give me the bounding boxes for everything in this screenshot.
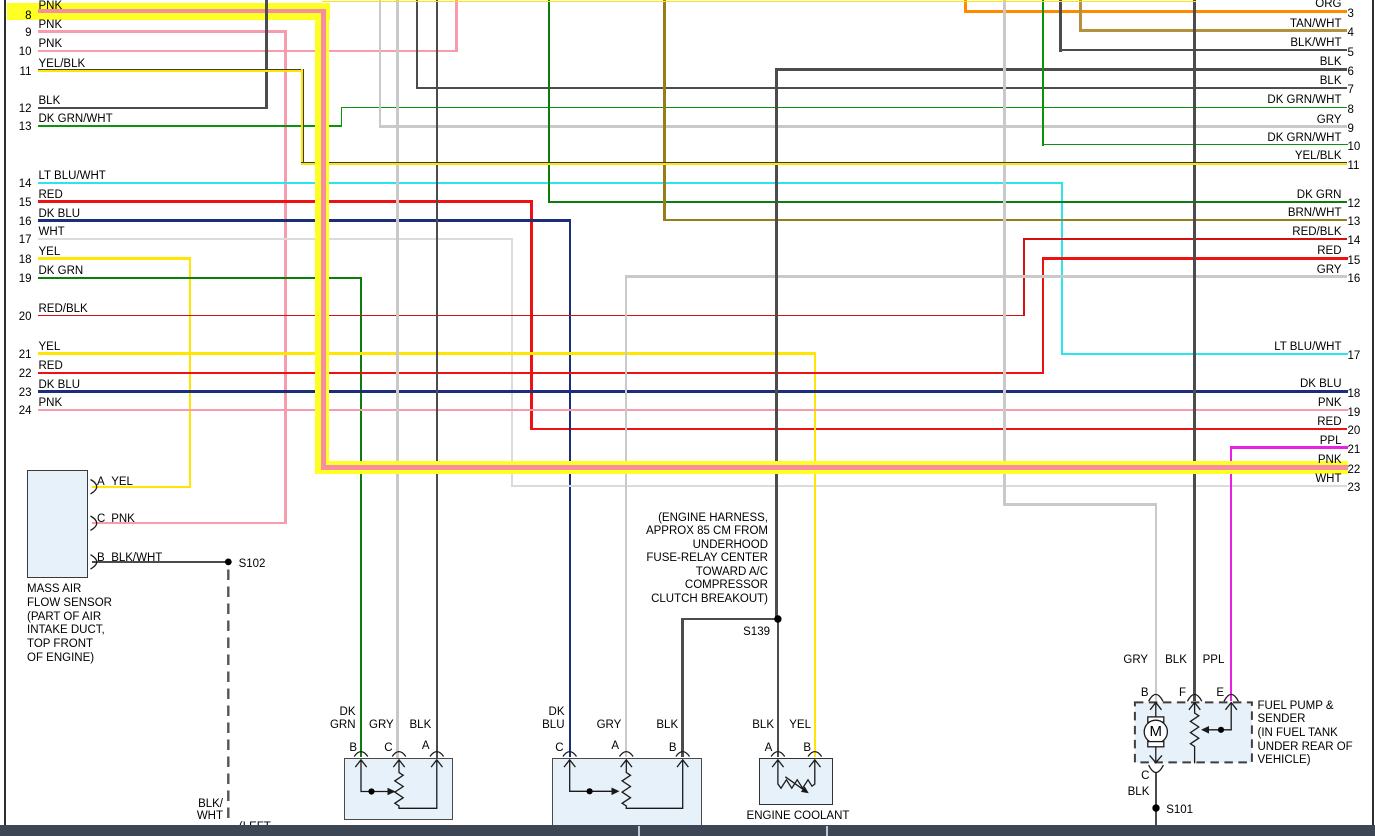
wire right pin12 DK GRN: [548, 201, 1347, 203]
pin number right 21: [1348, 443, 1361, 457]
label fuel pump PPL: [1174, 653, 1224, 667]
wire YEL along top edge: [322, 1, 1196, 3]
label left pin20 RED/BLK: [39, 302, 88, 316]
pin number right 3: [1348, 7, 1354, 21]
wire GRY vertical to sensor: [625, 275, 627, 757]
label right pin10 DK GRN/WHT: [1242, 131, 1342, 145]
pin number right 10: [1348, 140, 1361, 154]
label right pin21 PPL: [1242, 434, 1342, 448]
wire RED/BLK vertical: [1023, 238, 1025, 316]
pin number right 18: [1348, 387, 1361, 401]
pin number left 10: [9, 45, 32, 59]
pin number left 14: [9, 177, 32, 191]
sensor1 wiper arrowhead: [388, 788, 396, 796]
connector arc sensor2 pin A: [620, 752, 634, 757]
label sensor2 BLK: [656, 718, 678, 732]
connector arc sensor1 pin B: [354, 752, 368, 757]
pin A sensor1: [380, 739, 430, 753]
label left pin9 PNK: [39, 18, 63, 32]
wire DK GRN vertical to sensor: [360, 277, 363, 758]
pin C sensor1: [343, 741, 393, 755]
label left pin8 PNK: [39, 0, 63, 13]
wire pin13 DK GRN/WHT: [38, 125, 342, 127]
wire right pin7 BLK: [416, 87, 1348, 90]
highlight band pin8 PNK horizontal top: [7, 3, 330, 20]
label sensor1 DK GRN: [300, 706, 356, 733]
pin number left 16: [9, 215, 32, 229]
label left pin16 DK BLU: [39, 207, 81, 221]
wire pin12 DK GRN vertical: [548, 0, 550, 203]
wire right pin8 DK GRN/WHT: [341, 107, 1348, 109]
label MAF B BLK/WHT: [111, 551, 162, 565]
wire right pin22 PNK (highlighted): [321, 465, 1348, 470]
label right pin3 ORG: [1242, 0, 1342, 11]
pin number right 19: [1348, 406, 1361, 420]
label mass air flow sensor: [27, 583, 112, 665]
connector arc fuel pump pin F: [1187, 694, 1201, 701]
label left pin18 YEL: [39, 245, 61, 259]
pin A sensor2: [569, 739, 619, 753]
label fuel pump C BLK: [1099, 785, 1149, 799]
sensor2 wiper C arm: [570, 760, 612, 791]
sensor1 resistor zigzag: [395, 760, 437, 808]
label S101: [1166, 803, 1193, 817]
connector arc engine coolant pin A: [771, 752, 785, 757]
label right pin8 DK GRN/WHT: [1242, 93, 1342, 107]
bottom bar: [0, 825, 1375, 836]
label right pin7 BLK: [1242, 74, 1342, 88]
wire pin17 WHT: [38, 238, 513, 240]
label right pin11 YEL/BLK: [1242, 149, 1342, 163]
wire right pin10 DK GRN/WHT: [1042, 144, 1348, 146]
pin number left 18: [9, 253, 32, 267]
wire MAF pin B BLK/WHT: [92, 561, 228, 564]
wire right pin20 RED: [530, 428, 1347, 430]
wire WHT vertical: [511, 238, 513, 486]
highlight band horizontal to right pin22: [316, 461, 1348, 474]
connector arc MAF pin C: [91, 516, 97, 530]
motor letter M: [1148, 725, 1164, 739]
pin number left 8: [9, 9, 32, 23]
splice S101: [1152, 804, 1159, 811]
wire pin12 BLK: [38, 107, 268, 110]
label sensor1 GRY: [369, 718, 394, 732]
connector arc fuel pump pin C: [1149, 765, 1164, 773]
label right pin15 RED: [1242, 244, 1342, 258]
label left pin12 BLK: [39, 94, 61, 108]
wire pin10 PNK: [38, 50, 458, 52]
wire pin22 RED: [38, 372, 1044, 374]
bar mark 2: [826, 826, 828, 836]
pin number right 9: [1348, 122, 1354, 136]
wire YEL vertical to engine coolant: [814, 352, 816, 757]
pin number left 15: [9, 196, 32, 210]
pin number right 17: [1348, 349, 1361, 363]
wire pin21 YEL: [38, 352, 816, 354]
label sensor2 DK BLU: [509, 706, 565, 733]
label sensor2 GRY: [597, 718, 622, 732]
pin number right 22: [1348, 463, 1361, 477]
wire MAF pin C PNK: [92, 522, 287, 524]
label engine coolant BLK: [724, 718, 774, 732]
label (LEFT cut off: [239, 820, 271, 834]
highlight band vertical: [315, 3, 329, 474]
wire MAF pin A YEL: [92, 486, 191, 488]
pin F fuel pump: [1136, 686, 1186, 700]
label right pin19 PNK: [1242, 396, 1342, 410]
wire pin11 YEL/BLK vertical: [301, 69, 304, 165]
wire pin19 DK GRN: [38, 277, 362, 280]
pin number left 12: [9, 102, 32, 116]
connector arc sensor2 pin C: [563, 752, 577, 757]
wire pin14 LT BLU/WHT: [38, 182, 1063, 184]
fuel pump & sender dashed box: [1135, 702, 1252, 762]
wire right pin5 BLK/WHT: [1059, 49, 1347, 52]
pin A MAF: [97, 475, 105, 489]
pin number left 22: [9, 367, 32, 381]
pin B engine coolant: [761, 741, 811, 755]
pin B sensor2: [627, 741, 677, 755]
MASS AIR FLOW SENSOR box: [27, 470, 88, 578]
wire S139 BLK vertical: [775, 68, 778, 619]
pin E fuel pump: [1174, 686, 1224, 700]
wire right pin14 RED/BLK: [1023, 238, 1347, 240]
label MAF A YEL: [111, 475, 133, 489]
wire right pin16 GRY: [625, 275, 1347, 277]
wire BLK/WHT vertical: [1059, 0, 1062, 52]
wire pin18 YEL: [38, 257, 191, 259]
pin number right 13: [1348, 215, 1361, 229]
sensor 2 box: [552, 758, 702, 826]
pin number left 17: [9, 233, 32, 247]
wire GRY jog fuel pump: [1003, 503, 1157, 505]
right frame line: [1372, 0, 1374, 836]
wire BLK vertical to fuel pump F: [1193, 0, 1196, 701]
wire pin22 RED vertical: [1042, 257, 1045, 374]
pin B MAF: [97, 551, 105, 565]
wire pin15 RED vertical: [530, 200, 533, 430]
connector arc sensor2 pin B: [676, 752, 690, 757]
sensor2 wiper arrowhead: [612, 788, 620, 796]
pin number left 20: [9, 310, 32, 324]
pin number left 13: [9, 120, 32, 134]
label S139: [670, 625, 770, 639]
fuel pump motor M: [1155, 703, 1157, 718]
wire right pin13 BRN/WHT: [663, 219, 1347, 221]
sensor2 wiper junction dot: [587, 788, 593, 794]
pin number left 9: [9, 26, 32, 40]
label engine coolant box: [698, 809, 898, 823]
label left pin14 LT BLU/WHT: [39, 169, 106, 183]
connector arc fuel pump pin E: [1224, 694, 1238, 701]
label sensor1 BLK: [410, 718, 432, 732]
wire GRY drop to fuel pump B: [1155, 503, 1157, 701]
pin number left 23: [9, 386, 32, 400]
wire pin8 PNK (highlighted): [38, 9, 326, 14]
pin number right 12: [1348, 197, 1361, 211]
wire BRN/WHT vertical: [663, 0, 665, 221]
wire pin10 PNK vertical: [455, 0, 457, 52]
pin number right 6: [1348, 65, 1354, 79]
dashed wire below S102: [227, 570, 229, 825]
wire BLK to sensor2 pin B: [681, 618, 684, 758]
label right pin20 RED: [1242, 415, 1342, 429]
label right pin4 TAN/WHT: [1242, 17, 1342, 31]
fuel pump sender resistor: [1190, 703, 1198, 763]
wire pin9 GRY vertical: [379, 0, 381, 128]
wire pin23 DK BLU: [38, 390, 1348, 392]
wire ORG vertical: [964, 0, 966, 13]
wire pin8 PNK vertical (highlighted): [321, 9, 326, 470]
wire pin13 jog vertical: [341, 107, 343, 127]
label engine coolant YEL: [761, 718, 811, 732]
pin number right 16: [1348, 272, 1361, 286]
sensor1 wiper junction dot: [368, 788, 374, 794]
wire GRY vertical to sensor1 pin C: [396, 0, 398, 758]
label right pin16 GRY: [1242, 263, 1342, 277]
label fuel pump BLK: [1137, 653, 1187, 667]
label left pin17 WHT: [39, 225, 65, 239]
label left pin22 RED: [39, 359, 63, 373]
label left pin11 YEL/BLK: [39, 57, 86, 71]
wire DK BLU vertical to sensor: [569, 219, 571, 757]
wire TAN/WHT vertical: [1079, 0, 1081, 32]
engine coolant thermistor arrow: [785, 777, 803, 790]
label fuel pump block: [1258, 700, 1353, 768]
fuel pump wiper arrowhead: [1201, 726, 1209, 734]
pin number left 11: [9, 65, 32, 79]
connector arc MAF pin A: [91, 480, 97, 494]
label right pin18 DK BLU: [1242, 377, 1342, 391]
wire right pin6 BLK: [775, 68, 1347, 71]
label right pin13 BRN/WHT: [1242, 206, 1342, 220]
wire right pin21 PPL: [1230, 446, 1348, 448]
label right pin9 GRY: [1242, 113, 1342, 127]
pin number right 23: [1348, 481, 1361, 495]
left frame line: [4, 0, 6, 836]
label right pin22 PNK: [1242, 453, 1342, 467]
pin number right 15: [1348, 254, 1361, 268]
sensor2 resistor zigzag: [622, 760, 683, 808]
pin C fuel pump: [1099, 769, 1149, 783]
label BLK/WHT splice: [173, 797, 223, 811]
wire PPL vertical to fuel pump: [1230, 446, 1232, 701]
label right pin6 BLK: [1242, 55, 1342, 69]
bar mark 1: [638, 826, 640, 836]
wire LT BLU/WHT vertical: [1061, 182, 1063, 355]
fuel pump wiper junction dot: [1218, 727, 1224, 733]
label left pin13 DK GRN/WHT: [39, 112, 113, 126]
wire pin9 PNK vertical: [284, 30, 286, 524]
label left pin23 DK BLU: [39, 378, 81, 392]
label BLK/WHT splice 2: [173, 809, 223, 823]
pin A engine coolant: [722, 741, 772, 755]
splice S102: [225, 559, 232, 566]
connector arc engine coolant pin B: [808, 752, 822, 757]
pin number right 5: [1348, 46, 1354, 60]
sensor1 wiper B arm: [361, 760, 388, 792]
wire BLK to engine coolant pin A: [777, 618, 780, 758]
wire pin24 PNK: [38, 409, 1348, 411]
pin number right 14: [1348, 234, 1361, 248]
pin number right 4: [1348, 26, 1354, 40]
label S102: [239, 557, 266, 571]
label right pin12 DK GRN: [1242, 188, 1342, 202]
label left pin19 DK GRN: [39, 264, 84, 278]
splice S139: [774, 615, 781, 622]
label right pin17 LT BLU/WHT: [1242, 340, 1342, 354]
pin number left 21: [9, 348, 32, 362]
connector arc MAF pin B: [91, 555, 97, 569]
wire right pin3 ORG: [964, 10, 1347, 12]
wire pin15 RED: [38, 200, 533, 203]
wire GRY vertical fuel pump: [1003, 0, 1005, 506]
engine coolant thermistor: [778, 760, 815, 788]
wire right pin9 GRY: [379, 125, 1348, 127]
wire right pin4 TAN/WHT: [1079, 29, 1347, 31]
wire pin12 BLK vertical: [265, 0, 268, 109]
label left pin10 PNK: [39, 37, 63, 51]
label right pin14 RED/BLK: [1242, 225, 1342, 239]
wire pin20 RED/BLK: [38, 315, 1025, 317]
pin number right 8: [1348, 103, 1354, 117]
wire right pin23 WHT: [511, 485, 1347, 487]
pin number right 11: [1348, 159, 1360, 173]
wire right pin15 RED: [1042, 257, 1348, 260]
wire pin11 YEL/BLK: [38, 69, 304, 72]
connector arc fuel pump pin B: [1149, 694, 1163, 701]
label right pin23 WHT: [1242, 472, 1342, 486]
wire pin18 YEL vertical: [189, 257, 191, 488]
wire pin10 DK GRN/WHT vertical: [1042, 0, 1044, 146]
pin B fuel pump: [1099, 686, 1149, 700]
wire pin12 BLK vertical over band: [265, 0, 268, 20]
note engine harness S139: [518, 512, 768, 607]
connector arc sensor1 pin A: [430, 752, 444, 757]
wire right pin11 YEL/BLK: [301, 162, 1348, 165]
pin number right 20: [1348, 424, 1361, 438]
label left pin15 RED: [39, 188, 63, 202]
throttle position sensor box (sensor 1): [344, 758, 454, 820]
label MAF C PNK: [111, 512, 135, 526]
wire fuel pump pin C BLK: [1155, 773, 1158, 825]
wire pin16 DK BLU: [38, 219, 571, 221]
label left pin21 YEL: [39, 340, 61, 354]
wire pin7 BLK vertical: [416, 0, 419, 89]
label fuel pump GRY: [1098, 653, 1148, 667]
label left pin24 PNK: [39, 396, 63, 410]
pin C MAF: [97, 512, 105, 526]
wire pin9 PNK: [38, 30, 287, 32]
wire BLK vertical to sensor1 pin A: [436, 0, 439, 758]
pin number right 7: [1348, 83, 1354, 97]
pin number left 24: [9, 404, 32, 418]
engine coolant sensor box: [759, 758, 834, 805]
fuel pump wiper E arm: [1209, 703, 1231, 729]
wire right pin17 LT BLU/WHT: [1061, 353, 1348, 355]
pin C sensor2: [514, 741, 564, 755]
pin number left 19: [9, 272, 32, 286]
connector arc sensor1 pin C: [392, 752, 406, 757]
label right pin5 BLK/WHT: [1242, 36, 1342, 50]
pin B sensor1: [307, 741, 357, 755]
wire S139 branch horizontal: [681, 618, 778, 621]
